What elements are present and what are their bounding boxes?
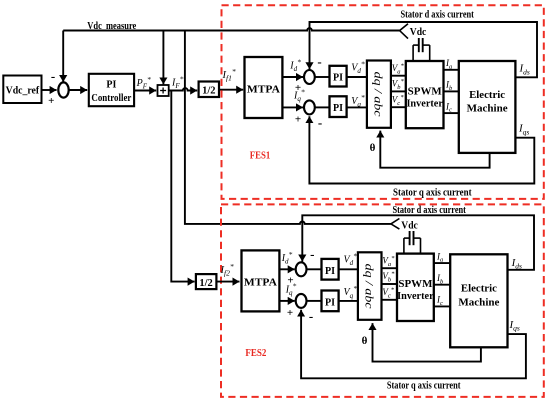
wire Vdc measure probe fork FES2: [391, 219, 400, 230]
svg-text:+: +: [287, 307, 293, 319]
block PI2 FES2: [322, 291, 339, 312]
wire I_a stub FES1: [444, 69, 459, 71]
svg-text:MTPA: MTPA: [247, 83, 280, 95]
wire PI2 to dq/abc FES1: [347, 106, 367, 108]
wire I_ds feedback FES2: [302, 215, 534, 269]
svg-text:PI: PI: [333, 103, 343, 114]
svg-text:Ib: Ib: [436, 273, 444, 285]
svg-text:Stator q axis current: Stator q axis current: [387, 381, 461, 392]
block PI1 FES2: [322, 259, 339, 280]
wire junction I_F to FES2 1/2 box: [171, 91, 194, 282]
summing circle C2 FES2: [296, 294, 307, 308]
svg-text:If1*: If1*: [222, 67, 236, 83]
summing square (P/V): [158, 85, 169, 96]
svg-text:Controller: Controller: [91, 93, 131, 104]
capacitor Cdc FES2: [404, 231, 421, 254]
svg-text:SPWM: SPWM: [398, 279, 432, 290]
wire 1/2 to MTPA FES2: [216, 281, 239, 283]
svg-text:Ia: Ia: [436, 251, 443, 263]
svg-text:Vc*: Vc*: [392, 94, 404, 107]
wire I_qs feedback FES1: [309, 116, 534, 183]
svg-text:Id*: Id*: [289, 57, 301, 73]
svg-text:1/2: 1/2: [199, 278, 212, 289]
svg-text:Vdc_ref: Vdc_ref: [6, 86, 40, 97]
svg-text:Vb*: Vb*: [392, 78, 405, 91]
svg-text:Vdc: Vdc: [401, 220, 418, 231]
svg-text:dq / abc: dq / abc: [372, 72, 386, 118]
svg-text:Inverter: Inverter: [406, 98, 443, 109]
svg-text:-: -: [310, 246, 314, 261]
svg-text:+: +: [295, 113, 301, 125]
wire Vdc measure drop into S1: [62, 31, 64, 83]
svg-text:Stator d axis current: Stator d axis current: [400, 10, 474, 21]
wire PI1 to dq/abc FES2: [339, 268, 358, 270]
svg-text:PI: PI: [333, 73, 343, 84]
wire C2 to PI2 FES1: [315, 106, 329, 108]
wire theta FES2: [373, 323, 481, 362]
svg-text:PF*: PF*: [136, 75, 151, 91]
svg-text:Ic: Ic: [445, 101, 452, 113]
wire theta FES1: [380, 131, 489, 168]
wire I_a stub FES2: [434, 262, 450, 264]
svg-text:Vd*: Vd*: [351, 59, 365, 75]
svg-text:dq / abc: dq / abc: [363, 264, 377, 310]
svg-text:Va*: Va*: [392, 62, 405, 75]
svg-text:If2*: If2*: [220, 262, 234, 278]
svg-text:Stator q axis current: Stator q axis current: [393, 187, 472, 198]
svg-text:MTPA: MTPA: [244, 276, 277, 288]
svg-text:Machine: Machine: [467, 104, 508, 115]
wire MTPA to summing circle C2 FES1: [282, 106, 303, 108]
FES2 dashed box: [221, 204, 544, 397]
svg-text:IF*: IF*: [171, 75, 184, 91]
summing circle C1 FES1: [304, 70, 315, 84]
summing circle C1 FES2: [296, 262, 307, 276]
wire I_b stub FES1: [444, 90, 459, 92]
svg-text:PI: PI: [325, 266, 335, 277]
wire PI2 to dq/abc FES2: [339, 300, 358, 302]
block PI1 FES1: [330, 66, 347, 87]
FES1 dashed box: [222, 5, 544, 199]
wire I_c stub FES1: [444, 112, 459, 114]
summing circle C2 FES1: [304, 100, 315, 114]
svg-text:θ: θ: [370, 142, 376, 154]
wire C1 to PI1 FES2: [307, 268, 322, 270]
svg-text:Machine: Machine: [458, 297, 499, 308]
svg-text:-: -: [309, 309, 313, 324]
svg-text:Vc*: Vc*: [382, 286, 394, 299]
svg-text:+: +: [48, 95, 54, 107]
wire Vdc measure probe fork FES1: [400, 24, 408, 39]
wire C1 to PI1 FES1: [315, 76, 329, 78]
svg-text:Stator d axis current: Stator d axis current: [392, 205, 466, 216]
svg-text:PI: PI: [106, 80, 116, 91]
block SPWM Inverter FES1: [406, 61, 444, 128]
svg-text:Ids: Ids: [511, 257, 522, 271]
svg-text:FES2: FES2: [245, 348, 266, 359]
capacitor Cdc FES1: [413, 38, 430, 61]
block PI2 FES1: [330, 96, 347, 117]
wire PI Controller to summing square: [134, 90, 156, 92]
svg-text:Electric: Electric: [469, 90, 505, 101]
svg-text:1/2: 1/2: [202, 85, 215, 96]
wire I_c stub FES2: [434, 305, 450, 307]
wire V_c stub FES2: [382, 299, 398, 301]
wire C2 to PI2 FES2: [307, 300, 322, 302]
svg-text:Vq*: Vq*: [344, 284, 358, 300]
svg-text:θ: θ: [362, 335, 368, 347]
summing junction S1: [58, 82, 68, 97]
svg-text:Vdc: Vdc: [410, 27, 427, 38]
svg-text:-: -: [51, 69, 55, 84]
wire V_a stub FES1: [391, 75, 406, 77]
wire 1/2 to MTPA FES1: [219, 89, 243, 91]
block Electric Machine FES2: [450, 254, 507, 347]
svg-text:-: -: [317, 54, 321, 69]
wire I_b stub FES2: [434, 284, 450, 286]
wire Vdc_ref to summing junction S1: [42, 89, 57, 91]
block MTPA FES2: [242, 250, 280, 311]
svg-text:Vd*: Vd*: [344, 252, 358, 268]
block MTPA FES1: [245, 57, 283, 118]
wire Vdc measure drop to FES2 with hop over FES2 stator-d drop: [185, 31, 391, 224]
svg-text:Vq*: Vq*: [351, 93, 365, 109]
wire Vdc measure net: horizontal with hop over stator-d drop, fork probe at right: [63, 28, 399, 30]
svg-text:Iqs: Iqs: [518, 123, 529, 137]
wire V_b stub FES2: [382, 283, 398, 285]
wire PI1 to dq/abc FES1: [347, 76, 367, 78]
block SPWM Inverter FES2: [397, 254, 434, 321]
svg-text:Ic: Ic: [436, 295, 443, 307]
wire I_qs feedback FES2: [301, 310, 526, 379]
wire MTPA to summing circle C2 FES2: [279, 300, 294, 302]
svg-text:Va*: Va*: [382, 255, 395, 268]
wire S1 to PI Controller: [68, 89, 87, 91]
wire MTPA to summing circle C1 FES2: [279, 268, 294, 270]
svg-text:Iqs: Iqs: [509, 319, 520, 333]
svg-text:Ids: Ids: [519, 63, 530, 77]
block 1/2 FES1: [199, 82, 219, 98]
wire I_ds feedback FES1: [310, 22, 538, 77]
wire MTPA to summing circle C1 FES1: [282, 76, 303, 78]
block 1/2 FES2: [196, 274, 217, 289]
svg-text:-: -: [318, 115, 322, 130]
svg-text:SPWM: SPWM: [408, 86, 442, 97]
wire V_b stub FES1: [391, 90, 406, 92]
svg-text:FES1: FES1: [250, 151, 270, 162]
svg-text:Id*: Id*: [281, 250, 293, 266]
block Electric Machine FES1: [459, 61, 516, 153]
svg-text:Electric: Electric: [461, 283, 497, 294]
block PI Controller: [89, 74, 134, 106]
wire Vdc measure drop into summing square: [162, 31, 164, 85]
svg-text:Vb*: Vb*: [382, 271, 395, 284]
wire V_a stub FES2: [382, 267, 398, 269]
svg-text:Inverter: Inverter: [397, 291, 434, 302]
block Vdc_ref: [3, 76, 41, 104]
block dq/abc FES1: [367, 61, 391, 128]
svg-text:Ia: Ia: [445, 58, 452, 70]
block dq/abc FES2: [358, 252, 382, 319]
wire summing square to 1/2 box with hop over Vdc drop: [169, 88, 198, 90]
svg-text:Ib: Ib: [445, 80, 453, 92]
wire V_c stub FES1: [391, 106, 406, 108]
svg-text:PI: PI: [325, 297, 335, 308]
